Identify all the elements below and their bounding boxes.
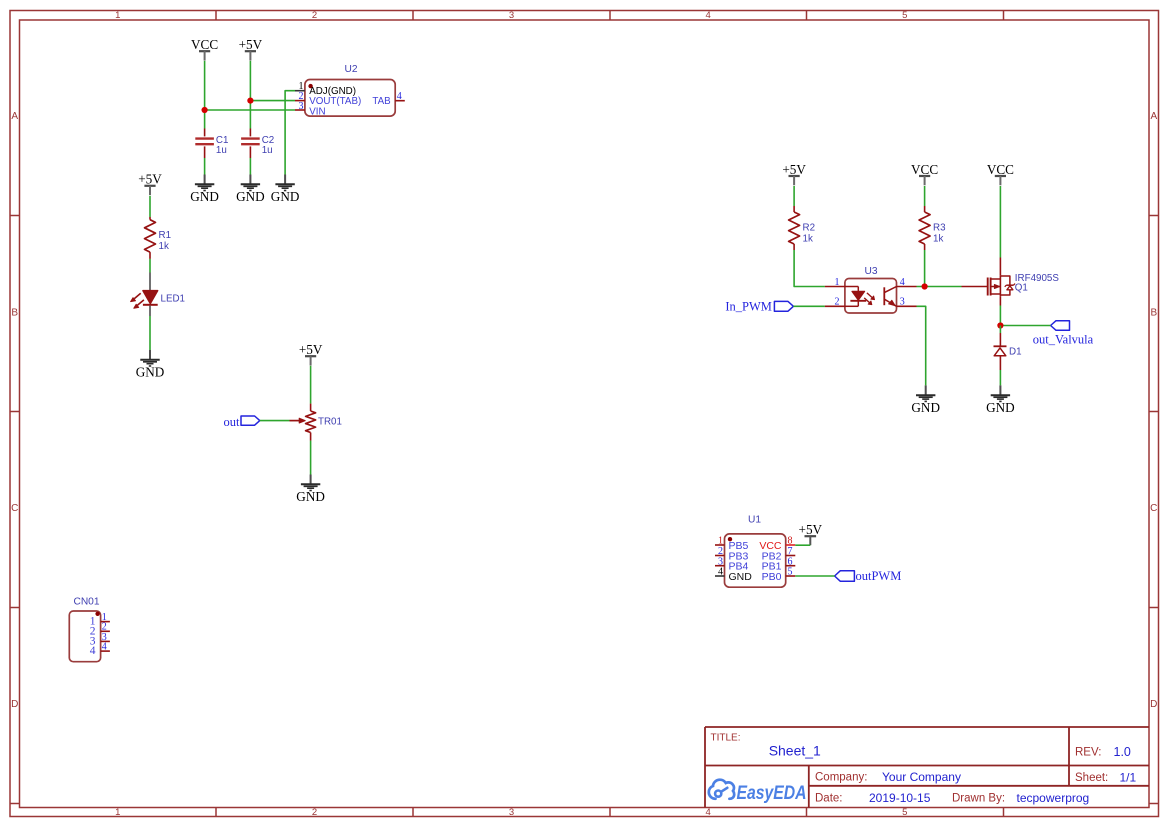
wire U3 pin4 to Q1 gate: [917, 286, 962, 288]
svg-text:+5V: +5V: [138, 172, 162, 187]
svg-text:REV:: REV:: [1075, 747, 1101, 759]
wire U1 PB0 to outPWM: [795, 575, 834, 577]
net flag In_PWM: [725, 300, 793, 314]
wire D1 to GND: [999, 370, 1001, 385]
power flag VCC at R3: [911, 162, 938, 186]
wire R1 to LED1: [149, 259, 151, 273]
svg-text:out: out: [224, 415, 241, 429]
wire +5V column vertical: [249, 61, 251, 129]
svg-text:GND: GND: [911, 400, 940, 415]
svg-text:R2: R2: [803, 223, 816, 234]
transistor Q1 IRF4905S: [962, 258, 1060, 306]
svg-text:1k: 1k: [159, 241, 169, 252]
microcontroller U1: [715, 515, 795, 588]
junction +5V/VOUT: [247, 98, 253, 104]
resistor R3 1k: [919, 206, 946, 250]
svg-text:2: 2: [835, 297, 840, 308]
wire U2 pin3 to VCC: [205, 109, 295, 111]
op-amp U2 voltage regulator: [295, 64, 405, 117]
resistor R2 1k: [789, 206, 815, 250]
svg-text:VCC: VCC: [911, 162, 938, 177]
capacitor C2 1u: [241, 129, 274, 159]
EasyEDA logo: [709, 780, 807, 804]
diode D1: [994, 326, 1022, 371]
svg-text:1: 1: [718, 536, 723, 547]
svg-text:Q1: Q1: [1015, 283, 1028, 294]
svg-text:CN01: CN01: [73, 597, 99, 608]
svg-text:4: 4: [900, 277, 905, 288]
svg-text:C1: C1: [216, 135, 229, 146]
svg-text:EasyEDA: EasyEDA: [737, 783, 807, 804]
svg-text:1: 1: [115, 10, 120, 21]
wire VCC column vertical: [204, 61, 206, 129]
svg-text:TAB: TAB: [372, 96, 391, 107]
svg-text:U2: U2: [345, 64, 358, 75]
ground under C1: [190, 175, 219, 204]
svg-text:5: 5: [902, 807, 907, 818]
svg-text:D: D: [1150, 699, 1157, 710]
svg-text:2019-10-15: 2019-10-15: [869, 791, 931, 805]
wire In_PWM to U3 pin2: [793, 305, 825, 307]
wire TR01 to GND: [310, 441, 312, 475]
power flag VCC (net VCC): [191, 37, 218, 61]
svg-text:Sheet:: Sheet:: [1075, 772, 1108, 784]
wire VCC to Q1 drain: [999, 186, 1001, 258]
potentiometer TR01: [290, 404, 342, 441]
svg-text:GND: GND: [296, 489, 325, 504]
svg-text:4: 4: [90, 645, 96, 657]
resistor R1 1k: [145, 217, 172, 259]
svg-text:5: 5: [788, 567, 793, 578]
svg-text:3: 3: [900, 297, 905, 308]
wire +5V to R2: [793, 186, 795, 206]
wire R3 to junction: [924, 250, 926, 287]
svg-text:U1: U1: [748, 515, 761, 526]
svg-text:GND: GND: [271, 189, 300, 204]
svg-text:PB0: PB0: [762, 571, 782, 583]
wire +5V to TR01: [310, 366, 312, 404]
power flag +5V at R2: [782, 162, 806, 186]
wire C1 to GND: [204, 158, 206, 175]
ground under C2: [236, 175, 265, 204]
svg-text:Date:: Date:: [815, 793, 843, 805]
svg-text:1u: 1u: [262, 145, 273, 156]
junction Q1/D1/out_Valvula: [997, 322, 1003, 328]
svg-text:+5V: +5V: [799, 522, 823, 537]
svg-text:Company:: Company:: [815, 772, 867, 784]
svg-text:8: 8: [788, 536, 793, 547]
net flag out_Valvula: [1033, 321, 1094, 347]
svg-text:1k: 1k: [933, 233, 943, 244]
svg-text:A: A: [1150, 111, 1157, 122]
svg-text:VCC: VCC: [191, 37, 218, 52]
power flag +5V (net +5V): [239, 37, 263, 61]
wire VCC to R3: [924, 186, 926, 206]
svg-text:VIN: VIN: [309, 106, 325, 117]
svg-text:GND: GND: [729, 571, 753, 583]
svg-text:Drawn By:: Drawn By:: [952, 793, 1005, 805]
svg-text:4: 4: [706, 10, 711, 21]
net flag out: [224, 415, 260, 429]
wire U1 VCC to +5V: [795, 544, 810, 546]
svg-text:Your Company: Your Company: [882, 770, 961, 784]
svg-text:outPWM: outPWM: [856, 569, 902, 583]
svg-text:1.0: 1.0: [1114, 745, 1131, 759]
svg-text:GND: GND: [190, 189, 219, 204]
svg-text:B: B: [11, 308, 18, 319]
svg-text:4: 4: [102, 642, 107, 653]
svg-text:GND: GND: [986, 400, 1015, 415]
svg-text:D1: D1: [1009, 347, 1022, 358]
wire R2 to U3 pin1: [794, 250, 825, 287]
svg-text:4: 4: [397, 91, 402, 102]
junction VCC/VIN: [202, 107, 208, 113]
svg-text:2: 2: [312, 807, 317, 818]
junction U3 pin4 / R3: [922, 283, 928, 289]
svg-text:B: B: [1150, 308, 1157, 319]
ground under U3: [911, 385, 940, 414]
svg-text:1: 1: [835, 277, 840, 288]
svg-text:A: A: [11, 111, 18, 122]
svg-text:+5V: +5V: [782, 162, 806, 177]
power flag +5V at U1: [799, 522, 823, 545]
wire Q1 source to junction: [999, 306, 1001, 326]
svg-text:out_Valvula: out_Valvula: [1033, 333, 1094, 347]
capacitor C1 1u: [195, 129, 228, 159]
svg-text:GND: GND: [136, 364, 165, 379]
power flag +5V at TR01: [299, 342, 323, 366]
ground under U2 ADJ: [271, 175, 300, 204]
svg-text:In_PWM: In_PWM: [725, 300, 772, 314]
svg-text:4: 4: [706, 807, 711, 818]
svg-text:5: 5: [902, 10, 907, 21]
svg-text:3: 3: [299, 101, 304, 112]
svg-text:R3: R3: [933, 223, 946, 234]
svg-text:GND: GND: [236, 189, 265, 204]
wire +5V to R1: [149, 196, 151, 217]
LED LED1: [131, 273, 185, 317]
svg-text:D: D: [11, 699, 18, 710]
svg-text:1: 1: [115, 807, 120, 818]
wire out flag to TR01 wiper: [260, 420, 290, 422]
svg-text:Sheet_1: Sheet_1: [769, 743, 821, 759]
ground under D1: [986, 385, 1015, 414]
svg-text:2: 2: [312, 10, 317, 21]
svg-text:VCC: VCC: [987, 162, 1014, 177]
svg-text:1/1: 1/1: [1120, 771, 1137, 785]
title block: [705, 727, 1149, 808]
svg-text:C: C: [11, 503, 18, 514]
svg-text:1u: 1u: [216, 145, 227, 156]
power flag +5V at R1: [138, 172, 162, 196]
wire C2 to GND: [249, 158, 251, 175]
svg-text:LED1: LED1: [161, 293, 186, 304]
wire U3 pin3 to GND: [917, 306, 926, 385]
svg-text:1k: 1k: [803, 233, 813, 244]
svg-text:C2: C2: [262, 135, 275, 146]
connector CN01: [69, 597, 110, 662]
svg-text:C: C: [1150, 503, 1157, 514]
wire U2 pin1 ADJ to GND: [285, 91, 295, 175]
svg-text:3: 3: [509, 807, 514, 818]
svg-text:TR01: TR01: [318, 416, 342, 427]
svg-text:tecpowerprog: tecpowerprog: [1017, 791, 1090, 805]
svg-text:TITLE:: TITLE:: [711, 733, 741, 744]
net flag outPWM: [835, 569, 902, 583]
wire junction to out_Valvula: [1000, 325, 1050, 327]
wire U2 pin2 to +5V: [250, 100, 295, 102]
svg-text:4: 4: [718, 567, 723, 578]
optocoupler U3: [825, 266, 917, 313]
svg-text:U3: U3: [865, 266, 878, 277]
svg-text:R1: R1: [159, 230, 172, 241]
wire LED1 to GND: [149, 316, 151, 350]
ground under TR01: [296, 475, 325, 504]
svg-text:+5V: +5V: [299, 342, 323, 357]
svg-text:+5V: +5V: [239, 37, 263, 52]
ground under LED1: [136, 350, 165, 379]
power flag VCC at Q1: [987, 162, 1014, 186]
svg-text:3: 3: [509, 10, 514, 21]
